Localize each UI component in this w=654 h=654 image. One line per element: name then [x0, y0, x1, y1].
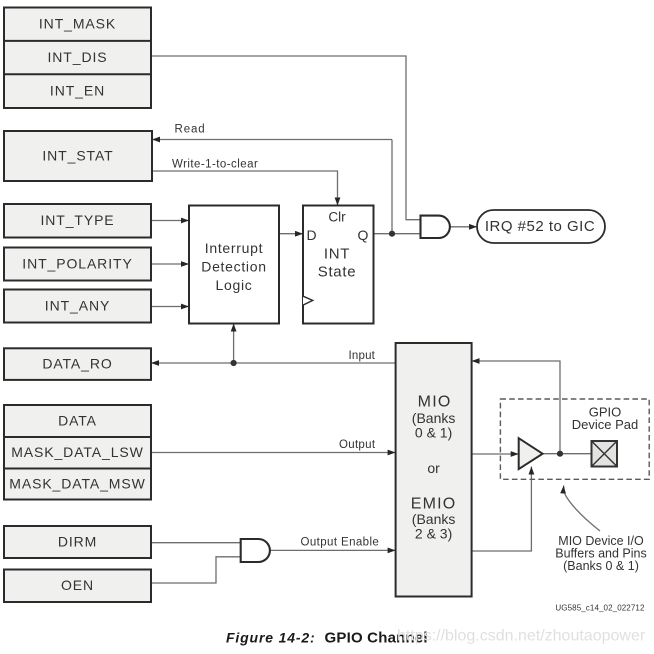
svg-text:Q: Q	[358, 227, 369, 243]
svg-text:MIO: MIO	[418, 393, 452, 410]
svg-text:Clr: Clr	[328, 210, 346, 225]
svg-text:Device Pad: Device Pad	[572, 417, 638, 432]
svg-text:MASK_DATA_LSW: MASK_DATA_LSW	[11, 444, 144, 460]
svg-text:EMIO: EMIO	[411, 495, 457, 512]
svg-text:Read: Read	[175, 124, 206, 136]
svg-text:Interrupt: Interrupt	[205, 240, 263, 256]
svg-text:INT_TYPE: INT_TYPE	[40, 212, 114, 228]
svg-text:INT_ANY: INT_ANY	[45, 297, 110, 313]
svg-text:2 & 3): 2 & 3)	[415, 525, 452, 541]
svg-text:OEN: OEN	[61, 577, 94, 593]
svg-text:(Banks 0 & 1): (Banks 0 & 1)	[563, 559, 639, 573]
svg-text:0 & 1): 0 & 1)	[415, 424, 452, 440]
svg-text:IRQ #52 to GIC: IRQ #52 to GIC	[485, 218, 595, 235]
svg-text:MASK_DATA_MSW: MASK_DATA_MSW	[9, 475, 145, 491]
svg-text:State: State	[318, 264, 357, 281]
svg-text:INT_MASK: INT_MASK	[39, 16, 116, 32]
svg-text:DATA: DATA	[58, 412, 97, 428]
svg-text:D: D	[306, 227, 316, 243]
svg-text:INT: INT	[324, 246, 350, 263]
svg-text:https://blog.csdn.net/zhoutaop: https://blog.csdn.net/zhoutaopower	[397, 628, 646, 645]
svg-text:UG585_c14_02_022712: UG585_c14_02_022712	[555, 603, 645, 612]
svg-text:INT_EN: INT_EN	[50, 83, 105, 99]
svg-text:Write-1-to-clear: Write-1-to-clear	[172, 158, 258, 170]
svg-text:Output: Output	[339, 439, 376, 451]
svg-text:Figure 14-2:: Figure 14-2:	[226, 630, 316, 646]
svg-text:Detection: Detection	[201, 258, 266, 274]
svg-text:Input: Input	[349, 350, 376, 362]
svg-text:DATA_RO: DATA_RO	[42, 355, 112, 371]
svg-text:or: or	[427, 460, 440, 476]
svg-text:INT_STAT: INT_STAT	[42, 147, 113, 163]
svg-text:Output Enable: Output Enable	[301, 537, 380, 549]
svg-text:DIRM: DIRM	[58, 533, 97, 549]
svg-text:INT_POLARITY: INT_POLARITY	[22, 255, 132, 271]
svg-text:INT_DIS: INT_DIS	[48, 49, 108, 65]
svg-text:Logic: Logic	[216, 277, 253, 293]
